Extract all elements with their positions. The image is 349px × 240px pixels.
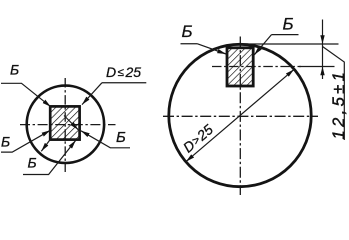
dimension line segment between extension lines (322, 44, 324, 67)
diameter dimension line D>25 (186, 69, 294, 161)
vertical centerline left circle (64, 78, 66, 172)
svg-text:Б: Б (116, 129, 126, 146)
horizontal centerline left circle (20, 124, 116, 126)
shelf under D<=25 (102, 82, 146, 84)
leader B2 to left edge of square (1, 130, 50, 152)
horizontal centerline right circle (163, 115, 318, 117)
svg-text:12,5±1: 12,5±1 (330, 69, 348, 140)
circle (shaft outline) left (27, 86, 104, 163)
vertical centerline right circle (239, 37, 241, 196)
svg-text:D≤25: D≤25 (106, 64, 141, 80)
leader B1 to top-left corner (1, 83, 51, 107)
leader B left to keyway left edge (198, 44, 227, 54)
leader B4 to right edge of square (81, 131, 130, 148)
keyway horizontal centerline (212, 66, 301, 68)
extension line top (circle top) (241, 43, 339, 45)
leader B3 to bottom edge of square (23, 140, 76, 174)
circle (shaft outline) right (169, 44, 311, 186)
arrow bottom-left corner to circle bore (41, 139, 51, 151)
svg-text:Б: Б (10, 62, 19, 78)
square hole hatched (left) (50, 106, 79, 139)
leader D<=25 to top-right corner (82, 83, 102, 105)
leader to rotated depth text (323, 47, 345, 141)
svg-text:Б: Б (283, 14, 294, 33)
svg-text:Б: Б (28, 154, 37, 170)
shelf under B right (272, 34, 299, 36)
depth dimension line vertical with outside arrows (322, 20, 324, 45)
shelf under B left (181, 43, 198, 45)
svg-text:Б: Б (1, 134, 10, 150)
leader B right to keyway right edge (254, 35, 271, 55)
keyway rect hatched (227, 48, 253, 86)
arrow inside to bottom-right corner (64, 116, 78, 130)
svg-text:Б: Б (182, 22, 193, 41)
extension line bottom (keyway centerline extended) (299, 66, 335, 68)
